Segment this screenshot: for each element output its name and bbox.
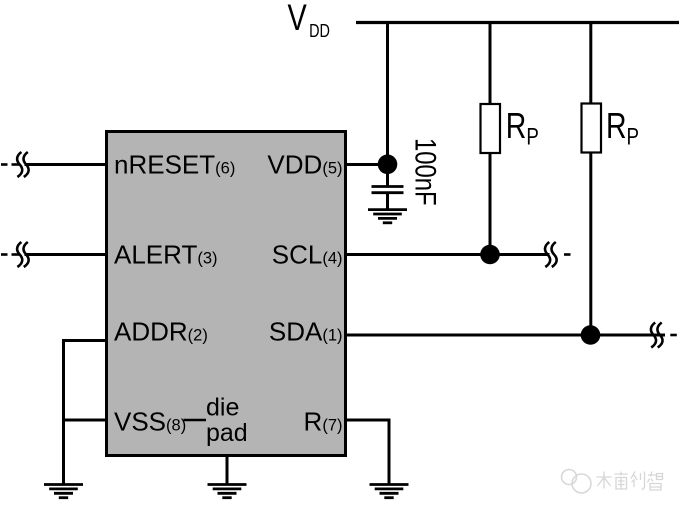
svg-text:RP: RP xyxy=(506,104,539,150)
ground R(7) xyxy=(370,485,409,498)
net VDD rail wire xyxy=(356,21,679,24)
wire RP2 bottom lead xyxy=(589,153,592,336)
ground C1 xyxy=(368,210,407,223)
svg-text:VDD: VDD xyxy=(288,0,330,42)
IC U1 body xyxy=(107,132,346,456)
break symbol SCL xyxy=(545,242,570,267)
die pad dash xyxy=(184,419,207,422)
wire VDD rail drop to RP1 xyxy=(489,23,492,105)
ground die pad xyxy=(208,485,247,498)
junction dot SDA/RP2 xyxy=(581,325,601,345)
break symbol nRESET xyxy=(1,152,29,177)
wire ADDR stub xyxy=(64,339,109,342)
wire VDD rail drop to RP2 xyxy=(589,23,592,104)
wire R(7) vertical xyxy=(388,419,391,484)
wire C1 bottom lead xyxy=(386,194,389,210)
wire ADDR/VSS vertical xyxy=(62,339,65,484)
watermark text xyxy=(597,472,663,491)
resistor RP1 xyxy=(481,104,501,153)
ground VSS xyxy=(44,485,83,498)
break symbol ALERT xyxy=(1,242,29,267)
wire VSS stub xyxy=(64,419,109,422)
svg-text:die: die xyxy=(206,394,239,422)
wire VDD pin stub xyxy=(346,163,388,166)
break symbol SDA xyxy=(651,323,677,348)
wire R(7) stub xyxy=(346,419,390,422)
wire die pad lead xyxy=(226,456,229,484)
svg-text:pad: pad xyxy=(206,419,248,447)
resistor RP2 xyxy=(582,104,602,153)
svg-text:RP: RP xyxy=(606,104,639,150)
svg-text:100nF: 100nF xyxy=(409,138,443,206)
wire VDD rail drop to C1 xyxy=(386,23,389,186)
capacitor C1 plates xyxy=(372,185,404,188)
wire RP1 bottom lead xyxy=(489,153,492,255)
watermark logo xyxy=(562,470,592,494)
wire SCL xyxy=(346,253,550,256)
wire nRESET stub xyxy=(25,163,109,166)
junction dot VDD/C1 xyxy=(378,155,398,175)
wire ALERT stub xyxy=(25,253,109,256)
junction dot SCL/RP1 xyxy=(480,245,500,265)
wire SDA xyxy=(346,334,666,337)
